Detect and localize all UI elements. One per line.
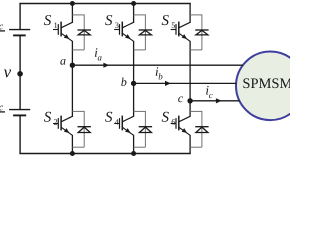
- wire: phase a line: [72, 64, 243, 66]
- wire: diode branch top of S2-A: [72, 111, 84, 147]
- current arrow i_c: [216, 98, 222, 103]
- label S1: [44, 15, 57, 28]
- SPMSM motor circle: [236, 52, 305, 121]
- wire: emitter of S4-B: [133, 135, 135, 154]
- label fragment (u_dc) of battery C1: [0, 25, 5, 31]
- label i_c: [206, 86, 212, 98]
- wire: diode branch bottom of S5-C: [190, 49, 202, 51]
- label SPMSM: [243, 78, 292, 88]
- label S5: [162, 15, 175, 28]
- wire: collector of S5-C: [189, 4, 191, 23]
- label node b: [121, 78, 126, 86]
- wire: diode branch top of S1-A: [72, 14, 84, 50]
- diode (antiparallel) of S2-A: [78, 127, 91, 133]
- wire: diode branch top of S4-B: [134, 111, 146, 147]
- transistor S5-C (IGBT): [171, 22, 190, 42]
- junction dot top bus / leg A: [70, 1, 75, 6]
- wire: emitter of S1-A: [71, 41, 73, 65]
- diode (antiparallel) of S6-C: [195, 127, 208, 133]
- junction dot bottom bus / leg B: [131, 151, 136, 156]
- transistor S3-B (IGBT): [114, 22, 133, 42]
- junction dot bottom bus / leg A: [70, 151, 75, 156]
- diode (antiparallel) of S5-C: [195, 30, 208, 35]
- label i_a: [95, 48, 102, 60]
- diode (antiparallel) of S1-A: [78, 30, 91, 35]
- wire: phase b line: [134, 82, 237, 84]
- wire: diode branch top of S5-C: [190, 14, 202, 50]
- wire: diode branch top of S6-C: [190, 111, 202, 147]
- wire: diode branch bottom of S3-B: [134, 49, 146, 51]
- node b junction dot: [131, 81, 136, 86]
- node v junction dot: [17, 71, 23, 77]
- node a junction dot: [70, 62, 75, 67]
- label v (dc midpoint voltage): [4, 69, 11, 77]
- label S4: [105, 112, 119, 125]
- wire: phase c line: [190, 100, 240, 102]
- label node c: [178, 96, 183, 102]
- junction dot top bus / leg B: [131, 1, 136, 6]
- wire: emitter of S2-A: [71, 135, 73, 154]
- wire: collector of S1-A: [71, 4, 73, 23]
- wire: diode branch top of S3-B: [134, 14, 146, 50]
- wire: emitter of S6-C: [189, 135, 191, 154]
- wire: left DC-link upper segment: [19, 4, 21, 30]
- wire: collector of S3-B: [133, 4, 135, 23]
- label node a: [60, 59, 65, 65]
- wire: left DC-link middle segment: [19, 36, 21, 109]
- wire: diode branch bottom of S4-B: [134, 146, 146, 148]
- wire: diode branch bottom of S6-C: [190, 146, 202, 148]
- top DC bus: [19, 3, 190, 5]
- wire: diode branch bottom of S2-A: [72, 146, 84, 148]
- label S6: [162, 112, 175, 125]
- wire: emitter of S3-B: [133, 41, 135, 84]
- label S3: [105, 15, 118, 28]
- label fragment (u_dc) of battery C2: [0, 106, 5, 112]
- wire: emitter of S5-C: [189, 41, 191, 101]
- battery C2 (lower dc source): [9, 110, 30, 116]
- diode (antiparallel) of S3-B: [139, 30, 152, 35]
- battery C1 (upper dc source): [9, 30, 30, 36]
- transistor S1-A (IGBT): [53, 22, 72, 42]
- wire: diode branch bottom of S1-A: [72, 49, 84, 51]
- transistor S2-A (IGBT): [53, 116, 72, 136]
- label i_b: [156, 67, 163, 79]
- label S2: [44, 112, 57, 125]
- diode (antiparallel) of S4-B: [139, 127, 152, 133]
- transistor S4-B (IGBT): [114, 116, 133, 136]
- transistor S6-C (IGBT): [171, 116, 190, 136]
- current arrow i_b: [165, 81, 171, 86]
- bottom DC bus: [19, 153, 190, 155]
- wire: left DC-link lower segment: [19, 116, 21, 154]
- wire: collector of S2-A: [71, 65, 73, 117]
- wire: collector of S6-C: [189, 101, 191, 117]
- wire: collector of S4-B: [133, 83, 135, 117]
- current arrow i_a: [103, 63, 109, 68]
- node c junction dot: [187, 98, 192, 103]
